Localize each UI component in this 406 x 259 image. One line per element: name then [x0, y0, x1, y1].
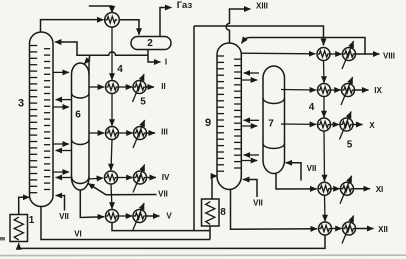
arrow into V-1 left	[99, 216, 104, 218]
furnace 8	[202, 199, 220, 226]
wire draw into vessel 7 sec3	[241, 160, 257, 162]
wire reflux branch to column 3	[58, 42, 90, 55]
arrow into XII-1 left	[312, 228, 318, 230]
arrow into II-1 top	[111, 75, 113, 80]
exchanger X-2 (cooler)	[340, 118, 353, 131]
column 9 (second tower)	[217, 43, 241, 190]
wire column 3 overhead to condenser	[41, 20, 103, 32]
arrow into drum 2 top	[138, 30, 140, 35]
arrow into IX-1 top	[323, 78, 325, 83]
wire furnace 8 riser	[209, 226, 211, 240]
svg-text:7: 7	[268, 119, 274, 130]
wire vapor return sec3 to column 3	[56, 150, 72, 152]
exchanger III-1	[106, 127, 119, 140]
arrow into condenser top	[109, 6, 116, 13]
wire V-1 to V-2	[119, 215, 133, 217]
svg-text:VII: VII	[59, 212, 69, 221]
wire vessel 6 draw to III-1	[89, 132, 104, 134]
arrow steam into vessel 7	[286, 162, 292, 164]
condenser exchanger (top)	[105, 12, 120, 27]
arrow reflux into column 3	[55, 41, 60, 43]
wire column 9 bottoms to XII-1	[231, 190, 317, 230]
arrow reflux into column 9 top	[241, 39, 244, 43]
wire XI-1 to XI-2	[331, 188, 340, 190]
exchanger XII-1	[319, 222, 332, 235]
arrow into column 3 bottom left	[24, 196, 29, 198]
arrow into V-1 top	[111, 204, 113, 209]
svg-text:2: 2	[147, 38, 153, 49]
wire riser to top header	[193, 26, 195, 231]
wire VIII reflux return to column 9	[242, 38, 365, 55]
arrow product out X	[353, 124, 363, 126]
arrow product out XII	[356, 228, 374, 230]
exchanger VIII-2 (cooler)	[343, 48, 356, 61]
arrow product out III	[147, 132, 156, 134]
exchanger IX-1	[318, 84, 331, 97]
wire VIII-1 to IX-1	[323, 61, 326, 83]
svg-text:VI: VI	[74, 229, 82, 238]
furnace 1	[10, 215, 28, 242]
svg-text:VII: VII	[307, 164, 317, 173]
exchanger V-1	[106, 210, 119, 223]
wire II-1 to III-1	[111, 94, 113, 126]
exchanger VIII-1	[317, 48, 330, 61]
exchanger IV-1	[105, 171, 118, 184]
wire vessel 6 draw to IV-1	[89, 178, 103, 179]
svg-text:VII: VII	[158, 189, 168, 198]
arrow steam into column 9	[243, 179, 249, 181]
arrow stream I	[154, 61, 161, 63]
arrow into X-1 top	[323, 112, 325, 117]
arrow steam into column 3	[56, 195, 61, 197]
cooler arrow IX-2	[341, 77, 353, 105]
wire IX-1 to IX-2	[331, 89, 341, 91]
arrow into condenser left	[98, 19, 104, 21]
arrow stream XIII	[244, 8, 251, 10]
arrow into III-1 top	[111, 121, 113, 126]
wire vapor return v7s1 to column 9	[244, 72, 259, 74]
wire draw into vessel 6 sec1	[53, 71, 69, 73]
cooler arrow XI-2	[340, 176, 352, 204]
wire IX-1 to X-1	[323, 97, 325, 117]
svg-text:IV: IV	[162, 173, 170, 182]
svg-text:IX: IX	[374, 86, 382, 95]
wire XI-1 to XII-1	[324, 195, 327, 221]
wire condenser to II-1	[111, 28, 113, 79]
wire vessel 6 draw to II-1	[89, 86, 104, 88]
wire furnace 8 to column 9 bottom	[212, 176, 215, 199]
arrow into VIII-1 top	[323, 40, 325, 45]
wire crude transfer line V-1 bottom to risers	[112, 223, 210, 231]
arrow into vessel 6 top	[84, 58, 89, 64]
arrow into XI-1 top	[324, 176, 326, 181]
svg-text:III: III	[161, 127, 168, 136]
svg-text:VII: VII	[253, 199, 263, 208]
wire column 3 bottoms VI line	[41, 207, 210, 240]
vessel 7 (side stripper)	[263, 66, 285, 174]
arrow product out II	[146, 86, 154, 88]
wire vessel 6 wall extension	[88, 59, 90, 75]
cooler arrow V-2	[133, 203, 145, 231]
wire draw into vessel 6 sec4	[53, 171, 69, 173]
arrow steam into vessel 6	[88, 183, 95, 187]
wire XII-1 bottom to furnace 1	[19, 235, 325, 249]
arrow product out IV	[147, 177, 157, 179]
reflux drum 2	[131, 37, 171, 50]
wire furnace 1 to column 3 bottom	[19, 197, 28, 214]
wire gas line from drum 2	[160, 8, 170, 37]
arrow product out VIII	[356, 53, 380, 55]
wire vessel 7 draw to IX-1	[281, 89, 316, 92]
cooler arrow III-2	[133, 120, 145, 148]
wire vapor return v7s2 to column 9	[244, 119, 259, 121]
wire steam VII into column 3	[58, 196, 65, 211]
wire draw into vessel 6 sec2	[53, 106, 69, 108]
wire branch into vessel 6 top	[89, 55, 91, 59]
vessel 6 (side stripper)	[72, 63, 90, 190]
cooler arrow X-2	[340, 112, 352, 140]
svg-text:6: 6	[75, 110, 81, 121]
wire vapor return sec4 to column 3	[56, 177, 72, 179]
wire draw into vessel 7 sec2	[241, 125, 257, 127]
arrow product out XI	[354, 188, 371, 190]
wire vessel 7 bottoms to XI-1	[276, 174, 317, 190]
exchanger II-1	[106, 81, 119, 94]
exchanger III-2 (cooler)	[134, 127, 147, 140]
svg-text:XI: XI	[376, 185, 384, 194]
arrow product out V	[146, 215, 160, 217]
wire stream XIII with hop	[226, 9, 248, 43]
svg-text:Газ: Газ	[177, 0, 193, 11]
wire III-1 to III-2	[119, 132, 133, 134]
svg-text:XIII: XIII	[256, 2, 268, 11]
wire VIII-1 to VIII-2	[330, 53, 342, 55]
cooler arrow VIII-2	[342, 41, 354, 69]
svg-text:X: X	[369, 121, 375, 130]
exchanger IV-2 (cooler)	[134, 171, 147, 184]
wire XII-1 to XII-2	[332, 228, 342, 230]
wire IV-1 to IV-2	[118, 177, 133, 179]
wire II-1 to II-2	[119, 86, 133, 88]
svg-text:5: 5	[347, 140, 353, 151]
arrow into column 9 bottom left	[212, 175, 218, 177]
exchanger V-2 (cooler)	[133, 210, 146, 223]
wire IV-1 to V-1	[111, 184, 112, 208]
svg-text:8: 8	[220, 207, 226, 218]
wire vapor return v7s3 to column 9	[244, 154, 259, 156]
svg-text:4: 4	[117, 64, 123, 75]
svg-text:3: 3	[18, 98, 24, 110]
exchanger XI-1	[318, 182, 331, 195]
exchanger II-2 (cooler)	[133, 81, 146, 94]
svg-text:V: V	[166, 212, 172, 221]
wire coolant line into condenser top	[89, 6, 112, 11]
wire condenser to drum 2	[119, 20, 139, 34]
exchanger IX-2 (cooler)	[342, 84, 355, 97]
cooler arrow IV-2	[133, 165, 145, 193]
arrow into furnace 1 bottom	[18, 243, 20, 247]
wire steam VII into vessel 7	[290, 163, 301, 181]
scan artifact bottom line	[0, 254, 406, 256]
svg-text:XII: XII	[378, 225, 388, 234]
wire steam VII into column 9	[246, 180, 258, 198]
scan artifact left mark	[0, 237, 5, 240]
exchanger X-1	[318, 118, 331, 131]
wire draw into vessel 6 sec3	[53, 143, 69, 145]
wire III-1 to IV-1	[111, 140, 112, 170]
arrow gas out	[165, 7, 172, 9]
wire drum bottoms header with hop	[90, 52, 149, 55]
arrow into XII-1 top	[324, 216, 326, 221]
wire steam VII into vessel 6	[90, 185, 156, 195]
wire vessel 7 draw to X-1	[281, 123, 316, 125]
svg-text:1: 1	[29, 215, 35, 226]
svg-text:II: II	[161, 82, 165, 91]
exchanger XI-2 (cooler)	[341, 182, 354, 195]
cooler arrow XII-2	[342, 216, 354, 244]
wire vessel 6 bottoms to V-1	[80, 190, 104, 218]
exchanger XII-2 (cooler)	[343, 222, 356, 235]
wire draw into vessel 7 sec1	[241, 79, 257, 81]
wire column 9 overhead to VIII-1	[241, 52, 315, 55]
cooler arrow II-2	[133, 74, 145, 102]
wire top header y26 to exchanger VIII-1	[194, 26, 324, 45]
wire X-1 to X-2	[331, 124, 340, 126]
svg-text:9: 9	[205, 117, 211, 129]
arrow into XI-1 left	[311, 188, 317, 190]
wire vapor return sec2 to column 3	[56, 99, 72, 101]
svg-text:4: 4	[309, 102, 315, 113]
svg-text:VIII: VIII	[383, 52, 395, 61]
wire drum 2 bottoms to stream I	[148, 50, 158, 63]
svg-text:I: I	[165, 58, 167, 67]
wire X-1 to XI-1	[323, 131, 326, 181]
svg-text:5: 5	[140, 97, 146, 108]
arrow into IV-1 top	[110, 165, 112, 170]
column 3 (atmospheric tower)	[30, 32, 54, 207]
arrow product out IX	[355, 89, 369, 91]
